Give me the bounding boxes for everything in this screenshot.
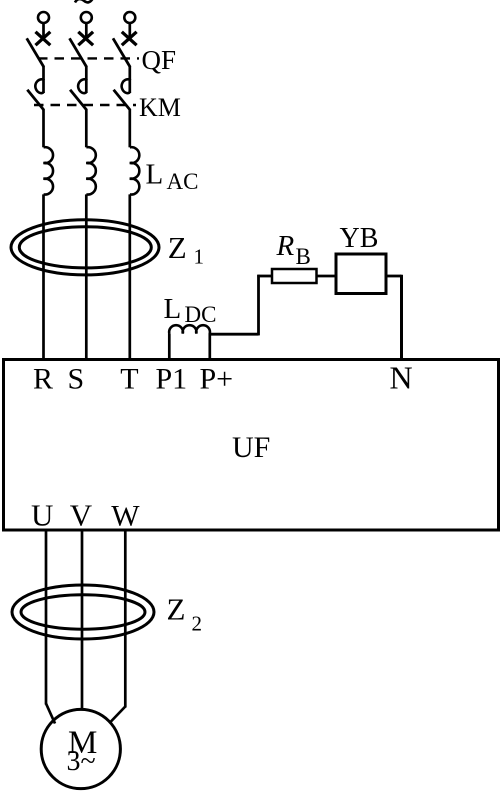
- P1 stub: [168, 334, 171, 360]
- QF blade pole 3: [113, 38, 130, 67]
- wire: [128, 23, 131, 39]
- wire to RB: [257, 275, 272, 278]
- inductor L_DC: [169, 325, 210, 359]
- KM blade pole 1: [27, 90, 44, 110]
- AC supply tilde: [75, 0, 93, 3]
- svg-text:P+: P+: [200, 363, 234, 396]
- inverter UF box: [4, 360, 499, 531]
- svg-text:2: 2: [192, 612, 203, 636]
- svg-text:P1: P1: [156, 363, 188, 396]
- KM linkage dashed line: [34, 104, 136, 106]
- svg-text:V: V: [70, 498, 93, 533]
- wire V output: [81, 530, 84, 711]
- phase T input pole: [113, 12, 139, 360]
- wire: [85, 109, 88, 147]
- wire W diagonal to motor: [110, 707, 126, 724]
- ring filter Z1 outer: [11, 220, 159, 275]
- braking unit YB: [336, 254, 386, 294]
- motor M circle: [41, 709, 120, 788]
- QF blade pole 1: [27, 38, 44, 67]
- wire U diagonal to motor: [46, 704, 55, 724]
- QF blade pole 2: [70, 38, 87, 67]
- svg-text:YB: YB: [340, 223, 379, 254]
- wire: [128, 109, 131, 147]
- wire: [42, 23, 45, 39]
- P+ stub: [208, 334, 211, 360]
- svg-text:Z: Z: [167, 592, 186, 627]
- svg-text:W: W: [111, 500, 140, 533]
- inductor L_AC pole 3: [130, 147, 140, 194]
- wire: [42, 109, 45, 147]
- wire to UF terminal S: [85, 194, 88, 359]
- contact hook pole 3: [122, 79, 130, 93]
- svg-text:B: B: [296, 244, 311, 269]
- terminal circle phase T: [124, 12, 135, 23]
- wire: [85, 66, 88, 80]
- KM blade pole 2: [70, 90, 87, 110]
- wire P+ to RB riser: [209, 333, 259, 336]
- contact X phase R: [36, 32, 51, 45]
- QF linkage dashed line: [38, 57, 139, 59]
- wire RB to YB: [317, 275, 337, 278]
- wire YB to N riser: [386, 275, 402, 278]
- wire U output: [45, 530, 48, 705]
- KM blade pole 3: [114, 90, 131, 110]
- contact hook pole 1: [35, 79, 43, 93]
- inductor L_AC pole 1: [44, 147, 54, 194]
- svg-text:R: R: [276, 230, 295, 262]
- svg-text:T: T: [120, 363, 138, 396]
- ring filter Z2 outer: [12, 585, 154, 639]
- contact X phase S: [78, 32, 93, 45]
- terminal circle phase S: [81, 12, 92, 23]
- svg-text:S: S: [68, 363, 85, 396]
- svg-text:L: L: [164, 293, 182, 325]
- svg-text:Z: Z: [168, 230, 187, 265]
- svg-text:3~: 3~: [67, 746, 96, 777]
- phase S input pole: [70, 12, 96, 360]
- riser wire: [257, 275, 260, 336]
- wire: [85, 23, 88, 39]
- inductor L_AC pole 2: [86, 147, 96, 194]
- svg-text:QF: QF: [142, 45, 177, 75]
- svg-text:U: U: [31, 498, 53, 533]
- svg-text:R: R: [33, 363, 53, 396]
- L_DC coil: [169, 325, 210, 333]
- ring filter Z2 inner: [21, 595, 145, 629]
- svg-text:1: 1: [194, 245, 205, 269]
- svg-text:UF: UF: [232, 431, 270, 464]
- wire to UF terminal T: [128, 194, 131, 359]
- wire W output: [124, 530, 127, 708]
- resistor RB: [272, 269, 317, 283]
- phase R input pole: [27, 12, 53, 360]
- terminal circle phase R: [38, 12, 49, 23]
- wire: [128, 66, 131, 80]
- wire down to N: [400, 275, 403, 360]
- wire: [42, 66, 45, 80]
- svg-text:L: L: [146, 159, 164, 191]
- ring filter Z1 inner: [19, 227, 151, 268]
- wire to UF terminal R: [42, 194, 45, 359]
- svg-text:AC: AC: [167, 169, 199, 194]
- svg-text:N: N: [390, 360, 413, 396]
- svg-text:KM: KM: [139, 93, 181, 122]
- contact hook pole 2: [78, 79, 86, 93]
- contact X phase T: [122, 32, 137, 45]
- svg-text:DC: DC: [185, 302, 217, 327]
